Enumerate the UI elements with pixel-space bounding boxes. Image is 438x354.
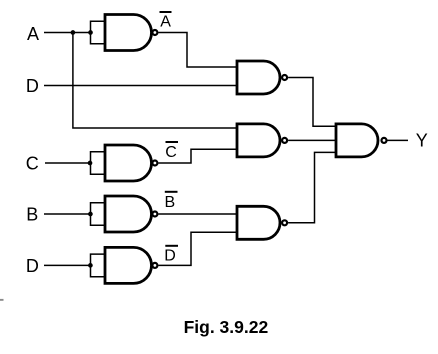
wire U4 input split bar (91, 152, 106, 175)
node A junction at gate U1 input split (88, 30, 93, 35)
wire D input to U2 bottom input (44, 85, 237, 87)
bubble U7 output (282, 220, 287, 225)
node B junction at gate U5 input split (88, 212, 93, 217)
bubble U4 output (152, 161, 157, 166)
node C junction at gate U4 input split (88, 161, 93, 166)
wire U6 output to U7 bottom input (158, 232, 237, 265)
svg-text:Fig. 3.9.22: Fig. 3.9.22 (184, 317, 269, 337)
nand-gate U2 (237, 61, 280, 94)
bubble U6 output (152, 263, 157, 268)
label Cbar overbar (166, 141, 179, 143)
wire U5 output to U7 top input (158, 213, 237, 215)
nand-gate U3 (237, 124, 280, 157)
nand-gate U7 (237, 206, 280, 239)
wire B input (44, 213, 91, 215)
nand-gate U5 (B inverter) (105, 196, 151, 232)
wire U5 input split bar (91, 203, 106, 226)
wire Y output (388, 139, 409, 141)
wire U3 output to U8 middle input (288, 139, 336, 141)
label Dbar overbar (165, 245, 178, 247)
svg-text:Y: Y (416, 131, 428, 151)
wire U1 output to U2 top input (158, 33, 237, 68)
node A junction to vertical branch (71, 30, 76, 35)
svg-text:A: A (160, 14, 171, 31)
wire U4 output to U3 bottom input (158, 149, 237, 163)
svg-text:A: A (27, 24, 39, 44)
bubble U1 output (152, 30, 157, 35)
wire C input (45, 162, 91, 164)
wire U2 output to U8 top input (288, 78, 336, 127)
svg-text:B: B (165, 194, 176, 211)
nand-gate U4 (C inverter) (105, 145, 151, 181)
svg-text:D: D (26, 256, 39, 276)
nand-gate U8 (3-input output gate) (336, 124, 378, 157)
stray mark left margin (0, 299, 4, 301)
bubble U5 output (152, 212, 157, 217)
label Abar overbar (160, 11, 172, 13)
bubble U8 output (382, 138, 387, 143)
nand-gate U1 (A inverter) (105, 15, 151, 51)
nand-gate U6 (D inverter) (105, 247, 151, 283)
svg-text:B: B (26, 205, 38, 225)
wire A branch down to U3 top input (73, 33, 237, 129)
svg-text:D: D (26, 76, 39, 96)
wire U6 input split bar (91, 254, 106, 277)
bubble U2 output (282, 75, 287, 80)
svg-text:C: C (26, 154, 39, 174)
wire U7 output to U8 bottom input (288, 152, 336, 222)
wire A input (44, 32, 91, 34)
wire D2 input (44, 264, 91, 266)
svg-text:D: D (164, 247, 176, 264)
svg-text:C: C (165, 144, 177, 161)
label Bbar overbar (165, 191, 178, 193)
bubble U3 output (282, 138, 287, 143)
node D2 junction at gate U6 input split (88, 263, 93, 268)
wire U1 input split bar (91, 21, 106, 44)
